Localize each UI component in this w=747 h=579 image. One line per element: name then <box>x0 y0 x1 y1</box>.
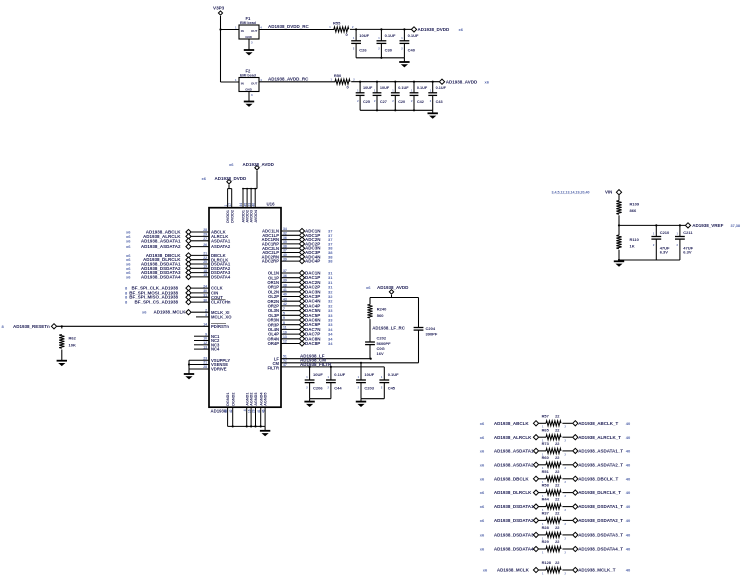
label R28 value 22 <box>542 525 567 540</box>
wire F1 OUT / net AD1938_DVDD_RC <box>259 29 334 31</box>
wire C40 bottom <box>403 43 405 57</box>
net AD1938_DLRCLK <box>126 257 181 262</box>
pin label DVDD1 DVDD2 inside <box>226 210 234 223</box>
pin ASDATA1 27 <box>203 237 231 243</box>
pin CIN 30 <box>203 289 218 295</box>
net DAC4P <box>305 303 333 308</box>
wire VSUPPLY bus <box>188 360 190 374</box>
svg-text:AD1938_ABCLK: AD1938_ABCLK <box>494 421 530 426</box>
wire DSDATA3 lead <box>191 272 209 274</box>
port AD1938_AVDD PLL <box>389 290 393 294</box>
capacitor C43 <box>428 93 437 96</box>
pin AVDD1 <box>239 188 244 208</box>
svg-text:AD1938_DSDATA3_T: AD1938_DSDATA3_T <box>578 533 623 538</box>
junction AVDD bottom rail <box>376 109 378 111</box>
wire OR1N lead <box>281 281 299 283</box>
port AD1938_DSDATA2 <box>533 518 538 523</box>
svg-text:AD1938_ASDATA1: AD1938_ASDATA1 <box>494 449 534 454</box>
net AD1938_ABCLK <box>126 230 181 235</box>
label R240 value 560 <box>377 307 387 318</box>
capacitor C206 <box>305 380 315 383</box>
wire FILTR caps bottom rail <box>310 398 331 400</box>
wire DSDATA3 to R28 <box>539 534 546 536</box>
ground DVDD bank <box>399 62 409 67</box>
svg-text:40: 40 <box>251 203 255 207</box>
label R58 value 22 <box>542 483 567 498</box>
label R128 value 22 <box>542 560 567 575</box>
port ADC4P <box>299 259 304 264</box>
pin VDRIVE 28 <box>189 365 227 371</box>
svg-text:42: 42 <box>229 409 233 413</box>
net AD1938_ALRCLK_T <box>578 435 631 440</box>
port AD1938_DBCLK_T <box>573 476 578 481</box>
wire AVDD bottom to ground <box>432 110 434 113</box>
port AD1938_DLRCLK_T <box>573 490 578 495</box>
svg-text:ADC4P: ADC4P <box>305 259 320 264</box>
svg-text:46: 46 <box>261 409 265 413</box>
net label AD1938_AVDD <box>446 79 490 84</box>
wire R28 to port <box>562 534 572 536</box>
svg-text:x6: x6 <box>126 274 131 279</box>
svg-text:AD1938_DSDATA3: AD1938_DSDATA3 <box>494 533 534 538</box>
pin OL1N 37 <box>268 269 287 275</box>
svg-text:x6: x6 <box>480 547 485 552</box>
pin label AGND1 inside <box>245 393 249 406</box>
junction FILTR C44 <box>330 366 332 368</box>
capacitor C204 <box>414 328 424 331</box>
wire AVDD drop <box>256 171 258 189</box>
svg-text:6.3V: 6.3V <box>660 249 669 254</box>
svg-text:AD1938_DBCLK: AD1938_DBCLK <box>494 476 530 481</box>
capacitor C45 <box>379 380 389 383</box>
net AD1938_DSDATA1_T <box>578 504 631 509</box>
net AD1938_MCLK <box>483 568 530 573</box>
net AD1938_ASDATA2_T <box>578 462 631 467</box>
port DAC7N <box>299 327 304 332</box>
net DAC2P <box>305 285 333 290</box>
resistor R28 <box>546 532 561 537</box>
net AD1938_MCLK_T <box>578 568 631 573</box>
svg-text:13: 13 <box>203 345 207 349</box>
svg-text:AD1938_ASDATA1_T: AD1938_ASDATA1_T <box>578 449 623 454</box>
svg-text:R55: R55 <box>333 21 341 26</box>
pin OR2P 42 <box>268 302 287 308</box>
svg-text:x6: x6 <box>459 27 464 32</box>
svg-text:48: 48 <box>224 409 228 413</box>
svg-text:x6: x6 <box>485 79 490 84</box>
wire OL4P lead <box>281 333 299 335</box>
wire CIN lead <box>191 292 209 294</box>
svg-text:AD1938_DSDATA1: AD1938_DSDATA1 <box>494 504 534 509</box>
port DAC5P <box>299 313 304 318</box>
wire ABCLK to R57 <box>539 422 546 424</box>
svg-text:x6: x6 <box>480 490 485 495</box>
pin OL1P 36 <box>268 274 287 280</box>
wire node to R110 <box>618 225 620 235</box>
net AD1938_ASDATA1 <box>480 449 534 454</box>
port DAC8P <box>299 341 304 346</box>
wire AD1938_FILTR <box>281 366 384 368</box>
net BF_SPI_CLK_AD1938 <box>125 286 178 291</box>
net AD1938_DBCLK <box>480 476 530 481</box>
net ADC1N <box>305 229 333 234</box>
svg-text:37,38: 37,38 <box>731 224 741 228</box>
wire ADC1RP lead <box>281 243 299 245</box>
junction AVDD rail C27 <box>376 81 378 83</box>
svg-text:29: 29 <box>252 409 256 413</box>
wire DVDD bottom to ground <box>403 58 405 62</box>
svg-text:C211: C211 <box>683 230 693 235</box>
ferrite bead F1 <box>235 16 262 45</box>
net DAC1P <box>305 275 333 280</box>
label R50 value 0 <box>331 73 356 89</box>
wire R60 to port <box>562 464 572 466</box>
wire OL3P lead <box>281 314 299 316</box>
svg-text:10UF: 10UF <box>313 372 323 377</box>
junction DVDD rail C30 <box>380 28 382 30</box>
capacitor C44 <box>326 380 336 383</box>
wire C45 bottom <box>383 383 385 399</box>
svg-text:3: 3 <box>205 313 207 317</box>
port VIN <box>616 190 621 195</box>
svg-text:ASDATA1: ASDATA1 <box>211 238 231 243</box>
svg-text:R51: R51 <box>542 469 550 474</box>
pin NC3 12 <box>194 341 220 347</box>
svg-text:R29: R29 <box>542 539 550 544</box>
svg-text:DAC8P: DAC8P <box>305 341 320 346</box>
wire DSDATA4 to R29 <box>539 548 546 550</box>
ground VREF divider <box>614 261 624 266</box>
ground CM caps <box>356 402 366 407</box>
net ADC2P <box>305 241 333 246</box>
svg-text:AD1938_DLRCLK_T: AD1938_DLRCLK_T <box>578 490 621 495</box>
svg-text:AD1938_AVDD: AD1938_AVDD <box>377 285 409 290</box>
label R65 value 22 <box>542 427 567 442</box>
net DAC7N <box>305 327 333 332</box>
svg-text:C43: C43 <box>436 100 443 104</box>
wire OR2N lead <box>281 300 299 302</box>
port AD1938_ASDATA2 <box>533 462 538 467</box>
svg-text:AD1938_RESETn: AD1938_RESETn <box>13 324 50 329</box>
wire OR4N lead <box>281 338 299 340</box>
wire C25 bottom <box>359 95 361 110</box>
svg-text:40: 40 <box>626 568 631 573</box>
label R60 value 22 <box>542 455 567 470</box>
net BF_SPI_CS_AD1938 <box>125 300 178 305</box>
net label AD1938_DVDD top <box>202 176 248 181</box>
port BF_SPI_CLK_AD1938 <box>186 286 191 291</box>
port AD1938_ALRCLK <box>533 435 538 440</box>
junction AVDD rail C20 <box>394 81 396 83</box>
wire ground rail drop <box>264 426 266 430</box>
svg-text:C25: C25 <box>363 100 370 104</box>
wire DSDATA1 to R44 <box>539 506 546 508</box>
svg-text:AD1938_ASDATA2_T: AD1938_ASDATA2_T <box>578 462 623 467</box>
net BF_SPI_MOSI_AD1938 <box>125 290 178 295</box>
net AD1938_ALRCLK <box>126 234 181 239</box>
svg-text:AD1938_DSDATA2: AD1938_DSDATA2 <box>494 518 534 523</box>
svg-text:40: 40 <box>626 533 631 538</box>
svg-text:R109: R109 <box>630 202 640 207</box>
wire C44 top <box>330 367 332 380</box>
port AD1938_ASDATA1 <box>186 238 191 243</box>
wire ADC2RN lead <box>281 256 299 258</box>
wire ABCLK lead <box>191 231 209 233</box>
svg-text:C202: C202 <box>377 336 387 341</box>
svg-text:x6: x6 <box>483 568 488 573</box>
wire C25 top <box>359 82 361 93</box>
ferrite bead F2 <box>235 68 262 97</box>
wire C30 bottom <box>380 43 382 57</box>
wire ground pin rail <box>228 425 266 427</box>
pin OR1N 39 <box>267 279 287 285</box>
net label AD1938_DVDD <box>418 27 464 32</box>
label C44 value 0.1UF <box>328 372 346 391</box>
svg-text:AGND4: AGND4 <box>259 392 263 406</box>
svg-text:AD1938_DSDATA4: AD1938_DSDATA4 <box>494 547 534 552</box>
label C27 value 10UF <box>374 86 390 104</box>
pin label AGND5 inside <box>264 393 268 406</box>
wire C43 top <box>432 82 434 93</box>
svg-text:AD1938_DLRCLK: AD1938_DLRCLK <box>494 490 532 495</box>
svg-text:6.3V: 6.3V <box>683 249 692 254</box>
port DAC3P <box>299 294 304 299</box>
pin NC1 9 <box>194 332 220 338</box>
port AD1938_DLRCLK <box>533 490 538 495</box>
svg-text:15: 15 <box>203 273 207 277</box>
wire FILTR bottom to ground <box>309 399 311 402</box>
wire F2 OUT / net AD1938_AVDD_RC <box>259 81 336 83</box>
wire C202 to LF <box>369 345 371 359</box>
wire C211 bottom <box>679 239 681 260</box>
svg-text:U16: U16 <box>267 201 276 206</box>
svg-text:10UF: 10UF <box>380 86 390 90</box>
svg-text:C203: C203 <box>364 386 374 391</box>
svg-text:R110: R110 <box>630 237 640 242</box>
pin NC4 13 <box>194 345 220 351</box>
wire V3P3 to F2 IN <box>221 81 240 83</box>
wire F1 GND stub <box>248 39 250 50</box>
pin AGND5 <box>261 407 265 426</box>
wire DLRCLK to R58 <box>539 492 546 494</box>
svg-text:AD1938_AVDD: AD1938_AVDD <box>446 79 478 84</box>
pin NC2 10 <box>194 337 220 343</box>
pin DSDATA3 18 <box>203 269 231 275</box>
junction DVDD rail C26 <box>355 28 357 30</box>
pin label AGND4 inside <box>259 392 263 406</box>
label C210 value 47UF 6.3V <box>653 230 670 254</box>
svg-text:AD1938_MCLK: AD1938_MCLK <box>497 568 530 573</box>
port AD1938_DSDATA2 <box>186 266 191 271</box>
svg-text:AD1938_AVDD_RC: AD1938_AVDD_RC <box>268 77 309 82</box>
net DAC5N <box>305 308 333 313</box>
resistor R55 <box>334 27 349 32</box>
svg-text:AD1938_DVDD: AD1938_DVDD <box>418 27 451 32</box>
wire R51 to port <box>562 478 572 480</box>
svg-text:C30: C30 <box>385 48 393 53</box>
pin ASDATA2 26 <box>203 243 231 249</box>
port AD1938_RESETn <box>51 324 56 329</box>
pin LF 51 <box>274 354 287 361</box>
pin AVDD4 <box>251 188 256 208</box>
label C26 value 10UF <box>353 33 370 52</box>
svg-text:R28: R28 <box>542 525 550 530</box>
net AD1938_DSDATA3_T <box>578 533 631 538</box>
port DAC4P <box>299 303 304 308</box>
net AD1938_DSDATA4_T <box>578 547 631 552</box>
ground F2 <box>244 102 254 107</box>
wire C206 top <box>309 367 311 380</box>
svg-text:x6: x6 <box>202 176 207 181</box>
label C211 value 47UF 6.3V <box>677 230 694 254</box>
svg-text:C20: C20 <box>398 100 405 104</box>
wire AD1938_LF <box>281 358 371 360</box>
port DAC1P <box>299 275 304 280</box>
net AD1938_DLRCLK <box>480 490 532 495</box>
capacitor C42 <box>410 93 419 96</box>
svg-text:40: 40 <box>626 490 631 495</box>
pin MCLK_XO 3 <box>196 313 232 319</box>
wire CM bottom to ground <box>360 399 362 402</box>
port AD1938_DSDATA1_T <box>573 504 578 509</box>
svg-text:x6: x6 <box>126 244 131 249</box>
svg-text:36: 36 <box>203 298 207 302</box>
svg-text:R58: R58 <box>542 483 550 488</box>
pin FILTR 47 <box>267 363 286 370</box>
net DAC7P <box>305 332 333 337</box>
svg-text:C26: C26 <box>359 48 367 53</box>
resistor R65 <box>546 435 561 440</box>
wire R109 to node <box>618 215 620 225</box>
pin DSDATA2 19 <box>203 265 231 271</box>
resistor R29 <box>546 546 561 551</box>
svg-text:AD1938_MCLK: AD1938_MCLK <box>153 310 186 315</box>
svg-text:AD1938_DSDATA4: AD1938_DSDATA4 <box>141 274 181 279</box>
net ADC3P <box>305 250 333 255</box>
svg-text:R37: R37 <box>542 511 549 516</box>
pin OL3N 7 <box>268 307 285 313</box>
svg-text:40: 40 <box>626 462 631 467</box>
svg-text:3,4,5,12,13,14,19,20,40: 3,4,5,12,13,14,19,20,40 <box>552 191 590 195</box>
wire R73 to port <box>562 450 572 452</box>
label C30 value 0.1UF <box>378 33 396 52</box>
net label AD1938_AVDD top <box>229 162 275 167</box>
port AD1938_DSDATA3 <box>186 270 191 275</box>
port DAC2N <box>299 280 304 285</box>
svg-text:560: 560 <box>377 313 384 318</box>
svg-text:AGND5: AGND5 <box>264 393 268 406</box>
net DAC2N <box>305 280 333 285</box>
svg-text:AD1938_LF_RC: AD1938_LF_RC <box>372 325 406 330</box>
svg-text:DVDD2: DVDD2 <box>230 210 234 223</box>
svg-text:PD/RSTn: PD/RSTn <box>211 324 229 329</box>
port ADC1N <box>299 228 304 233</box>
svg-text:10UF: 10UF <box>359 33 369 38</box>
pin OR3P 8 <box>268 321 285 327</box>
svg-text:AD1938_DVDD_RC: AD1938_DVDD_RC <box>268 24 310 29</box>
capacitor C211 <box>675 237 685 240</box>
svg-text:EMI bead: EMI bead <box>240 21 256 25</box>
ground R62 <box>57 361 67 366</box>
wire C210 top <box>655 225 657 236</box>
svg-text:41: 41 <box>257 409 261 413</box>
label C206 value 10UF <box>306 372 323 391</box>
net AD1938_ALRCLK <box>480 435 532 440</box>
svg-text:R62: R62 <box>69 336 77 341</box>
net label AD1938_VREF <box>692 223 740 228</box>
pin AGND2 <box>247 407 251 426</box>
svg-text:FILTR: FILTR <box>267 365 279 370</box>
junction AVDD rail C42 <box>413 81 415 83</box>
svg-text:0.1UF: 0.1UF <box>334 372 345 377</box>
capacitor C203 <box>356 380 366 383</box>
ground FILTR caps <box>304 402 314 407</box>
pin label AVDD2 inside <box>246 210 250 223</box>
capacitor C20 <box>391 93 400 96</box>
wire MCLK_XI lead <box>191 311 209 313</box>
net AD1938_ABCLK_T <box>578 421 631 426</box>
pin DGND1 <box>224 407 228 426</box>
junction ground rail <box>618 259 620 261</box>
svg-text:AD1938_DBCLK_T: AD1938_DBCLK_T <box>578 476 618 481</box>
port AD1938_ALRCLK <box>186 234 191 239</box>
junction ground rail DGND2 <box>232 425 234 427</box>
pin ADC1LP 32 <box>262 232 287 238</box>
label C20 value 0.1UF <box>392 86 409 104</box>
port AD1938_ABCLK_T <box>573 421 578 426</box>
port AD1938_ASDATA2_T <box>573 462 578 467</box>
port ADC3P <box>299 250 304 255</box>
net DAC6P <box>305 322 333 327</box>
svg-text:x6: x6 <box>142 310 147 315</box>
label R57 value 22 <box>542 413 567 428</box>
svg-text:40: 40 <box>626 504 631 509</box>
net AD1938_DSDATA1 <box>480 504 534 509</box>
svg-text:R44: R44 <box>542 497 550 502</box>
port V3P3 <box>218 11 222 15</box>
net AD1938_LF <box>300 353 325 358</box>
svg-text:x6: x6 <box>366 285 371 290</box>
port AD1938_DLRCLK <box>186 257 191 262</box>
net ADC2N <box>305 237 333 242</box>
port AD1938_DSDATA4 <box>186 274 191 279</box>
junction AVDD rail C25 <box>359 81 361 83</box>
junction VSENSE bus <box>188 363 190 365</box>
pin VSUPPLY 23 <box>189 356 230 362</box>
svg-text:27: 27 <box>203 237 207 241</box>
junction ground rail AGND3 <box>254 425 256 427</box>
port AD1938_MCLK_T <box>573 567 578 572</box>
pin ADC2RN 40 <box>262 253 287 259</box>
pin DSDATA4 15 <box>203 273 231 279</box>
wire ASDATA2 lead <box>191 246 209 248</box>
junction RESETn pulldown <box>61 325 63 327</box>
wire C204 to CM <box>418 330 420 363</box>
svg-text:R50: R50 <box>334 73 342 78</box>
wire ADC2RP lead <box>281 260 299 262</box>
wire C203 top <box>360 363 362 380</box>
svg-text:x6: x6 <box>480 449 485 454</box>
wire DBCLK to R51 <box>539 478 546 480</box>
svg-text:10UF: 10UF <box>363 86 373 90</box>
net AD1938_RESETn <box>2 324 51 329</box>
svg-text:16: 16 <box>247 409 251 413</box>
label C203 value 10UF <box>358 372 375 391</box>
wire C45 top <box>382 379 384 381</box>
svg-text:AD1938_ASDATA2: AD1938_ASDATA2 <box>494 462 534 467</box>
wire VREF ground rail <box>619 259 680 261</box>
pin ADC2LP 37 <box>262 249 287 255</box>
